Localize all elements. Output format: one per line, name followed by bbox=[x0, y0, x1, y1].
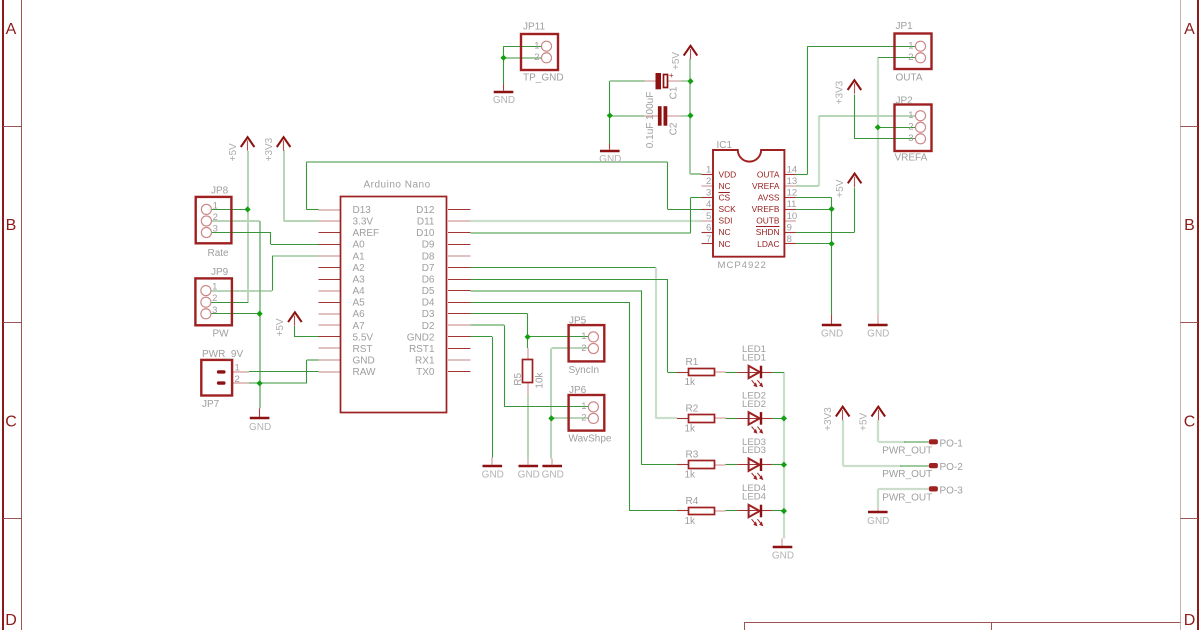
svg-text:PW: PW bbox=[213, 328, 230, 339]
svg-text:11: 11 bbox=[787, 199, 797, 210]
svg-text:+3V3: +3V3 bbox=[264, 137, 275, 161]
svg-text:13: 13 bbox=[787, 176, 798, 187]
svg-text:GND: GND bbox=[867, 329, 889, 340]
svg-text:PWR_9V: PWR_9V bbox=[202, 349, 243, 360]
svg-text:1k: 1k bbox=[685, 423, 697, 434]
svg-text:D4: D4 bbox=[422, 298, 435, 309]
svg-text:D3: D3 bbox=[422, 309, 435, 320]
svg-text:R1: R1 bbox=[686, 357, 699, 368]
svg-text:+3V3: +3V3 bbox=[823, 407, 834, 431]
svg-text:8: 8 bbox=[787, 234, 792, 245]
svg-text:PO-3: PO-3 bbox=[940, 486, 964, 497]
svg-text:GND: GND bbox=[493, 95, 515, 106]
svg-text:A6: A6 bbox=[353, 309, 366, 320]
svg-text:SyncIn: SyncIn bbox=[569, 365, 600, 376]
svg-text:3: 3 bbox=[213, 224, 218, 235]
svg-text:2: 2 bbox=[235, 374, 240, 385]
svg-text:B: B bbox=[1184, 217, 1195, 234]
svg-text:GND: GND bbox=[518, 469, 540, 480]
svg-text:+5V: +5V bbox=[671, 52, 682, 70]
svg-text:+: + bbox=[669, 71, 674, 80]
svg-text:2: 2 bbox=[908, 52, 913, 63]
svg-text:R4: R4 bbox=[686, 496, 699, 507]
svg-text:2: 2 bbox=[908, 122, 913, 133]
svg-text:1: 1 bbox=[235, 362, 240, 373]
svg-text:OUTA: OUTA bbox=[757, 169, 780, 179]
svg-text:3: 3 bbox=[706, 188, 711, 199]
svg-text:OUTB: OUTB bbox=[756, 216, 780, 226]
svg-text:A2: A2 bbox=[353, 263, 366, 274]
svg-text:GND: GND bbox=[599, 154, 621, 165]
svg-text:A4: A4 bbox=[353, 286, 366, 297]
svg-text:NC: NC bbox=[719, 181, 731, 191]
svg-text:RST1: RST1 bbox=[409, 344, 435, 355]
svg-text:+5V: +5V bbox=[275, 318, 286, 336]
svg-text:0.1uF: 0.1uF bbox=[645, 123, 656, 149]
svg-text:9: 9 bbox=[787, 222, 792, 233]
svg-text:1: 1 bbox=[213, 200, 218, 211]
svg-text:2: 2 bbox=[213, 212, 218, 223]
svg-text:CS: CS bbox=[719, 193, 731, 203]
svg-text:GND: GND bbox=[821, 329, 843, 340]
svg-text:3: 3 bbox=[908, 133, 913, 144]
svg-text:14: 14 bbox=[787, 165, 798, 176]
svg-text:7: 7 bbox=[706, 234, 711, 245]
svg-text:D13: D13 bbox=[353, 205, 372, 216]
svg-text:D8: D8 bbox=[422, 251, 435, 262]
svg-text:SDI: SDI bbox=[719, 216, 733, 226]
svg-text:D12: D12 bbox=[416, 205, 435, 216]
svg-text:JP6: JP6 bbox=[569, 385, 587, 396]
svg-text:RST: RST bbox=[353, 344, 373, 355]
svg-text:NC: NC bbox=[719, 239, 731, 249]
svg-text:1: 1 bbox=[581, 401, 586, 412]
svg-text:GND: GND bbox=[867, 516, 889, 527]
svg-text:JP8: JP8 bbox=[211, 186, 229, 197]
svg-text:4: 4 bbox=[706, 199, 711, 210]
svg-text:D9: D9 bbox=[422, 240, 435, 251]
svg-text:LED2: LED2 bbox=[742, 399, 766, 410]
svg-text:WavShpe: WavShpe bbox=[569, 433, 612, 444]
svg-text:C1: C1 bbox=[669, 86, 680, 99]
svg-text:+5V: +5V bbox=[859, 412, 870, 430]
svg-text:1k: 1k bbox=[685, 516, 697, 527]
svg-text:GND: GND bbox=[353, 356, 375, 367]
svg-text:1k: 1k bbox=[685, 470, 697, 481]
svg-text:+3V3: +3V3 bbox=[835, 80, 846, 104]
svg-text:TX0: TX0 bbox=[416, 367, 435, 378]
svg-text:AREF: AREF bbox=[353, 228, 380, 239]
svg-text:D6: D6 bbox=[422, 274, 435, 285]
svg-text:VDD: VDD bbox=[719, 169, 737, 179]
svg-text:5.5V: 5.5V bbox=[353, 332, 374, 343]
svg-text:VREFA: VREFA bbox=[752, 181, 780, 191]
svg-text:A3: A3 bbox=[353, 274, 366, 285]
svg-text:1: 1 bbox=[706, 165, 711, 176]
svg-text:VREFA: VREFA bbox=[895, 153, 928, 164]
svg-text:GND2: GND2 bbox=[407, 332, 435, 343]
svg-text:OUTA: OUTA bbox=[896, 73, 923, 84]
svg-text:VREFB: VREFB bbox=[752, 204, 780, 214]
svg-text:LED3: LED3 bbox=[742, 445, 766, 456]
svg-text:JP7: JP7 bbox=[202, 399, 220, 410]
svg-text:2: 2 bbox=[581, 413, 586, 424]
svg-text:1: 1 bbox=[212, 282, 217, 293]
svg-text:JP11: JP11 bbox=[523, 22, 545, 33]
svg-text:1: 1 bbox=[534, 41, 539, 52]
svg-text:+5V: +5V bbox=[228, 143, 239, 161]
svg-text:GND: GND bbox=[482, 469, 504, 480]
svg-text:10: 10 bbox=[787, 211, 798, 222]
svg-text:NC: NC bbox=[719, 227, 731, 237]
svg-text:A7: A7 bbox=[353, 321, 366, 332]
svg-text:GND: GND bbox=[542, 469, 564, 480]
svg-text:2: 2 bbox=[581, 343, 586, 354]
svg-text:6: 6 bbox=[706, 222, 711, 233]
svg-text:SCK: SCK bbox=[719, 204, 737, 214]
svg-text:LED1: LED1 bbox=[742, 353, 766, 364]
svg-text:D2: D2 bbox=[422, 321, 435, 332]
svg-text:5: 5 bbox=[706, 211, 711, 222]
svg-text:TP_GND: TP_GND bbox=[523, 73, 564, 84]
svg-text:LDAC: LDAC bbox=[757, 239, 779, 249]
svg-text:12: 12 bbox=[787, 188, 798, 199]
svg-text:RX1: RX1 bbox=[415, 356, 435, 367]
svg-text:D11: D11 bbox=[417, 217, 435, 228]
svg-text:GND: GND bbox=[772, 551, 794, 562]
svg-text:D5: D5 bbox=[422, 286, 435, 297]
svg-text:D: D bbox=[1184, 612, 1196, 629]
svg-text:10k: 10k bbox=[534, 371, 545, 388]
svg-text:A1: A1 bbox=[353, 251, 366, 262]
svg-text:A5: A5 bbox=[353, 298, 366, 309]
svg-text:C: C bbox=[1184, 413, 1196, 430]
svg-text:B: B bbox=[6, 217, 17, 234]
svg-text:A: A bbox=[6, 21, 17, 38]
svg-text:LED4: LED4 bbox=[742, 492, 767, 503]
svg-text:Rate: Rate bbox=[208, 248, 230, 259]
svg-text:1: 1 bbox=[908, 41, 913, 52]
svg-text:PWR_OUT: PWR_OUT bbox=[882, 469, 932, 480]
svg-text:IC1: IC1 bbox=[717, 140, 733, 151]
svg-text:3.3V: 3.3V bbox=[353, 217, 374, 228]
svg-text:JP2: JP2 bbox=[896, 95, 914, 106]
svg-text:+5V: +5V bbox=[835, 179, 846, 197]
svg-text:R2: R2 bbox=[686, 403, 699, 414]
svg-text:PO-1: PO-1 bbox=[940, 438, 964, 449]
svg-text:C2: C2 bbox=[669, 122, 680, 135]
svg-text:R3: R3 bbox=[686, 450, 699, 461]
svg-text:3: 3 bbox=[212, 305, 217, 316]
svg-text:PWR_OUT: PWR_OUT bbox=[882, 492, 932, 503]
svg-text:JP9: JP9 bbox=[211, 267, 229, 278]
svg-text:1k: 1k bbox=[685, 377, 697, 388]
svg-text:AVSS: AVSS bbox=[758, 193, 780, 203]
svg-text:1: 1 bbox=[908, 110, 913, 121]
svg-text:100uF: 100uF bbox=[645, 92, 656, 120]
svg-text:1: 1 bbox=[581, 331, 586, 342]
svg-text:C: C bbox=[5, 413, 17, 430]
svg-text:PO-2: PO-2 bbox=[940, 462, 964, 473]
svg-text:MCP4922: MCP4922 bbox=[718, 260, 767, 271]
svg-text:JP5: JP5 bbox=[569, 315, 587, 326]
svg-text:A: A bbox=[1184, 21, 1195, 38]
svg-text:RAW: RAW bbox=[353, 367, 377, 378]
svg-text:2: 2 bbox=[706, 176, 711, 187]
svg-text:GND: GND bbox=[249, 422, 271, 433]
svg-text:D7: D7 bbox=[422, 263, 435, 274]
svg-text:SHDN: SHDN bbox=[756, 227, 780, 237]
svg-text:2: 2 bbox=[212, 293, 217, 304]
svg-text:PWR_OUT: PWR_OUT bbox=[882, 445, 932, 456]
svg-text:A0: A0 bbox=[353, 240, 366, 251]
svg-text:D10: D10 bbox=[416, 228, 435, 239]
svg-text:2: 2 bbox=[534, 52, 539, 63]
svg-text:R5: R5 bbox=[513, 372, 524, 385]
svg-text:Arduino Nano: Arduino Nano bbox=[364, 179, 431, 190]
svg-text:D: D bbox=[5, 612, 17, 629]
svg-text:JP1: JP1 bbox=[896, 21, 914, 32]
